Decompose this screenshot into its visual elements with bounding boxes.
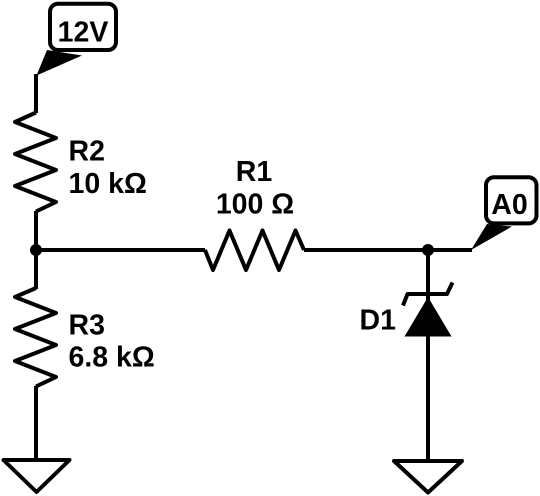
wire R3 to ground: [34, 386, 38, 460]
ground symbol left: [4, 460, 70, 492]
net label 12V box: [50, 4, 116, 50]
svg-text:12V: 12V: [58, 17, 109, 49]
zener diode D1 triangle: [405, 297, 452, 337]
wire right node to diode and ground: [426, 250, 430, 460]
svg-text:10 kΩ: 10 kΩ: [69, 168, 147, 200]
svg-text:100 Ω: 100 Ω: [216, 189, 294, 221]
resistor R2 zigzag: [15, 113, 56, 212]
net label 12V tail: [37, 50, 83, 76]
net label A0 tail: [471, 224, 512, 250]
resistor R3 zigzag: [15, 288, 56, 387]
wire left node to R1: [36, 248, 205, 252]
resistor R1 zigzag: [205, 231, 304, 271]
svg-text:A0: A0: [491, 189, 527, 221]
wire R1 to right node: [304, 248, 472, 252]
svg-text:R2: R2: [69, 136, 105, 168]
zener diode D1 cathode bar: [403, 283, 453, 306]
svg-text:6.8 kΩ: 6.8 kΩ: [69, 342, 155, 374]
node junction left: [30, 244, 42, 256]
svg-text:R3: R3: [69, 310, 105, 342]
ground symbol right: [394, 461, 462, 493]
wire 12V to R2: [34, 74, 38, 113]
svg-text:R1: R1: [236, 156, 273, 188]
node junction right: [422, 244, 434, 256]
svg-text:D1: D1: [360, 305, 397, 337]
wire R2 to R3: [34, 211, 38, 289]
net label A0 box: [486, 177, 537, 223]
